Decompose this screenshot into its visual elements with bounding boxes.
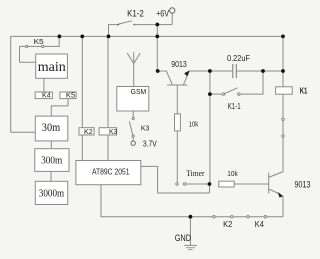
wire Q2 base <box>234 183 269 185</box>
block 3000m <box>35 181 67 204</box>
wire 300m to 3000m <box>50 171 52 181</box>
svg-text:K3: K3 <box>141 124 149 133</box>
switch K3 battery <box>129 111 134 141</box>
block K4 <box>35 92 52 99</box>
contact K4 bottom bus <box>247 216 267 218</box>
transistor Q2 9013 <box>269 172 284 217</box>
wire bus to K3 box <box>107 36 109 127</box>
switch K5 top-left <box>20 36 60 62</box>
node bus K5 <box>58 35 62 39</box>
wire AT89C to base node <box>141 166 210 193</box>
contact K2 bottom bus <box>213 216 233 218</box>
wire K1-2 junction down to Q1 collector <box>156 25 158 72</box>
node K1-2 +6V <box>155 23 159 27</box>
block GSM <box>117 87 149 112</box>
wire main to K4 <box>43 78 45 92</box>
resistor R1 10k <box>175 114 181 131</box>
resistor R2 10k <box>219 181 234 187</box>
svg-text:K3: K3 <box>109 129 117 136</box>
svg-text:AT89C 2051: AT89C 2051 <box>92 168 130 177</box>
block K2 <box>79 128 94 135</box>
switch K1-2 <box>109 21 173 37</box>
svg-text:K2: K2 <box>223 220 233 229</box>
wire right column to relay <box>282 36 284 86</box>
relay K1 <box>276 87 293 94</box>
ground <box>184 217 197 250</box>
block AT89C 2051 <box>76 161 141 185</box>
wire relay to Q2 collector with connector <box>282 94 284 171</box>
svg-text:30m: 30m <box>42 120 61 134</box>
wire 30m to 300m <box>50 141 52 149</box>
wire K5 box to 30m <box>51 99 68 117</box>
svg-text:K5: K5 <box>66 93 75 100</box>
wire left bus into 30m <box>11 131 36 133</box>
svg-text:K1-1: K1-1 <box>228 101 241 111</box>
node bus K2 <box>80 35 84 39</box>
node cap right <box>261 69 265 73</box>
node K1-1 left <box>208 92 212 96</box>
node base row <box>208 182 212 186</box>
wire bus to K2 box <box>81 36 83 127</box>
svg-text:9013: 9013 <box>295 179 311 189</box>
svg-text:10k: 10k <box>227 169 238 178</box>
node bus right <box>281 35 285 39</box>
terminal +6V <box>170 8 175 25</box>
wire Q1 base <box>176 85 178 114</box>
block 300m <box>35 149 69 172</box>
svg-text:GND: GND <box>175 233 191 244</box>
svg-text:K4: K4 <box>255 220 265 229</box>
node cap left <box>208 69 212 73</box>
wire K3 box to AT89C <box>107 135 109 161</box>
svg-text:3000m: 3000m <box>39 187 65 199</box>
block 30m <box>35 116 68 141</box>
svg-text:10k: 10k <box>189 120 199 129</box>
svg-text:K5: K5 <box>34 37 44 46</box>
terminal 3.7V <box>131 141 135 145</box>
svg-text:0.22uF: 0.22uF <box>227 53 250 63</box>
wire AT89C bottom to ground bus <box>101 185 283 217</box>
svg-text:3.7V: 3.7V <box>143 140 157 149</box>
svg-text:K2: K2 <box>84 129 93 136</box>
svg-text:K4: K4 <box>42 93 51 100</box>
wire node down from cap row <box>209 71 211 184</box>
wire R1 to timer contact <box>176 131 178 183</box>
svg-text:Timer: Timer <box>186 169 205 178</box>
node Q1 collector <box>156 69 160 73</box>
antenna GSM <box>127 52 140 87</box>
wire K2 box to AT89C <box>81 135 83 161</box>
wire cap row to right column <box>263 70 283 72</box>
node right column cap row <box>281 69 285 73</box>
wire top +6V bus <box>11 36 283 132</box>
transistor Q1 9013 <box>158 70 210 85</box>
svg-text:main: main <box>38 60 66 75</box>
svg-text:9013: 9013 <box>171 59 187 69</box>
node ground bus <box>189 215 193 219</box>
svg-text:K1: K1 <box>300 85 308 95</box>
block K3 <box>99 128 117 135</box>
wire into main box <box>20 61 36 63</box>
block main <box>36 54 68 78</box>
capacitor 0.22uF <box>210 64 263 78</box>
contact Timer <box>176 183 210 185</box>
svg-text:K1-2: K1-2 <box>127 8 144 18</box>
svg-text:GSM: GSM <box>131 87 147 96</box>
svg-text:300m: 300m <box>41 154 63 166</box>
svg-text:+6V: +6V <box>156 8 169 18</box>
node bus Q1 <box>155 35 159 39</box>
node bus K3 <box>107 35 111 39</box>
block K5 <box>60 92 76 99</box>
switch K1-1 <box>210 71 263 95</box>
